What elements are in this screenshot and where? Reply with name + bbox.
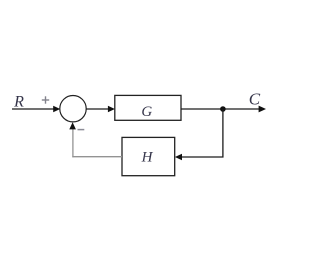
svg-text:H: H [141,150,154,166]
svg-text:C: C [249,89,261,108]
svg-text:R: R [13,94,24,111]
svg-text:G: G [141,104,152,120]
